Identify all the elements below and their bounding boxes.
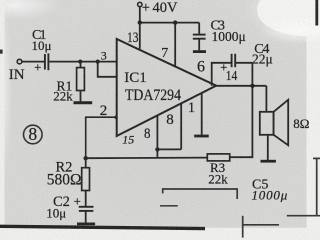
wire terminal to rail [139,7,141,23]
pin 1 wire [201,94,203,135]
wire (cropped figure, right stub) [313,157,320,159]
wire (cropped figure, center horizontal) [244,224,280,226]
speaker ground [267,135,269,160]
junction dot (feedback/R2) [84,156,88,160]
input terminal IN [17,59,22,64]
junction dot (R1 tap) [78,60,82,64]
resistor R2 [85,158,87,168]
wire (cropped figure, center vertical) [242,216,244,238]
wire pin9 to pin8 node [157,148,181,150]
capacitor C1 [44,54,46,70]
ground (C3) [193,50,206,53]
resistor R1 [77,68,85,91]
capacitor C3 [198,23,200,34]
pin 8 wire [156,115,158,158]
ground (pin 1) [194,135,209,138]
wire IN to C1 [22,61,44,63]
op-amp IC1 TDA7294 [117,39,217,136]
pin 13 wire [139,23,141,49]
speaker 8 ohm [260,112,274,135]
photo edge artifact left [0,50,3,54]
wire C1 to pin 3 [49,61,117,63]
junction dot (output) [250,84,254,88]
output wire (pin 14) [216,85,266,87]
+40V supply terminal [138,2,142,6]
wire to speaker [265,86,267,112]
pin 7 wire [174,23,176,67]
photo edge artifact top-right [315,0,318,26]
pin 9 wire [180,104,182,150]
wire (cropped figure, short left) [160,205,178,207]
junction dot (pin3 jog) [96,60,100,64]
ground (C2) [77,222,95,225]
resistor R3 [207,154,229,161]
junction dot (rail/pin7) [173,20,177,24]
pin 2 wire [86,117,117,158]
wire (cropped figure, right vertical) [316,159,318,217]
supply rail [140,22,199,24]
feedback wire R2 node to R3 [86,157,208,160]
junction dot (rail/pin13) [138,20,142,24]
wire (cropped figure, top bracket) [163,189,238,199]
bootstrap capacitor C4 branch [212,63,231,86]
ground (R1) [74,101,93,104]
wire (cropped figure, right horizontal) [287,215,320,217]
circled figure number 8 [24,125,43,144]
capacitor C2 [85,191,87,207]
output vertical leg to R3 [230,63,253,157]
pin 3 jog wire [98,62,117,77]
photo bottom edge thick bar [0,226,205,228]
junction dot (pins 8/9) [155,147,159,151]
